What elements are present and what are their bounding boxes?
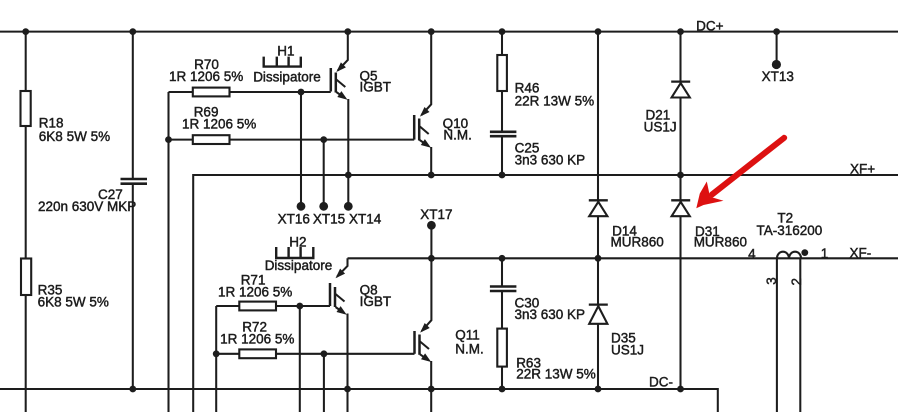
node XT14	[344, 202, 353, 211]
wire XT15 drop	[323, 140, 325, 206]
svg-text:1R 1206 5%: 1R 1206 5%	[169, 69, 243, 84]
junction dot R69 row / XT15 column	[320, 136, 327, 143]
wire XT14 drop	[347, 175, 349, 206]
svg-text:XT16: XT16	[278, 212, 310, 227]
junction dot R72 row / column	[321, 350, 328, 357]
svg-text:H2: H2	[289, 235, 306, 250]
transformer T2 winding	[777, 252, 801, 259]
svg-text:3n3 630 KP: 3n3 630 KP	[515, 153, 586, 168]
transistor Q5	[331, 32, 391, 175]
resistor R70	[193, 88, 230, 97]
red annotation arrow	[696, 138, 784, 209]
junction dot R70 row / XT16 column	[298, 89, 305, 96]
svg-text:Q11: Q11	[455, 328, 480, 343]
wire D14 anode to XF-	[597, 216, 599, 258]
junction dots XF+ rail	[345, 172, 684, 179]
svg-text:220n 630V MKP: 220n 630V MKP	[38, 199, 136, 214]
svg-text:DC-: DC-	[649, 375, 673, 390]
svg-text:H1: H1	[277, 44, 294, 59]
svg-text:1R 1206 5%: 1R 1206 5%	[220, 332, 294, 347]
wire T2 pin2 leg	[799, 258, 801, 412]
resistor R71	[239, 302, 276, 311]
svg-text:Dissipatore: Dissipatore	[253, 70, 321, 85]
wire R18/R35 column	[25, 32, 27, 412]
svg-text:XT13: XT13	[762, 69, 794, 84]
svg-text:N.M.: N.M.	[443, 128, 472, 143]
transistor Q11	[415, 258, 484, 412]
wire XT17/Q11 collector column	[430, 225, 432, 258]
wire XF- rail	[348, 257, 898, 259]
svg-text:XT14: XT14	[349, 212, 382, 227]
resistor R35	[21, 259, 31, 296]
wire DC+ bus	[0, 31, 898, 33]
transistor Q8	[330, 258, 391, 412]
node XT17	[427, 221, 436, 230]
svg-text:XT15: XT15	[313, 212, 345, 227]
resistor R63	[497, 329, 595, 389]
wire C27 column	[132, 32, 134, 389]
junction dot R69 row left	[165, 136, 172, 143]
capacitor C30	[490, 258, 585, 328]
svg-text:6K8 5W 5%: 6K8 5W 5%	[39, 129, 110, 144]
capacitor C27	[38, 179, 147, 214]
junction dots DC+ bus	[22, 28, 780, 35]
svg-text:XF+: XF+	[850, 162, 875, 177]
wire R71 row	[216, 305, 330, 307]
heatsink H1	[264, 57, 301, 67]
svg-text:1: 1	[821, 246, 829, 261]
node XT15	[319, 202, 328, 211]
svg-text:6K8 5W 5%: 6K8 5W 5%	[38, 295, 109, 310]
svg-text:1R 1206 5%: 1R 1206 5%	[218, 285, 292, 300]
diode D14	[589, 200, 664, 249]
wire XT16 drop	[300, 92, 302, 206]
svg-text:4: 4	[748, 247, 756, 262]
wire T2 pin3 leg	[776, 258, 778, 412]
wire XT15-R72 drop	[323, 354, 325, 412]
transformer T2	[748, 211, 828, 412]
wire XT16-R71 drop	[299, 306, 301, 412]
transistor Q10	[414, 32, 472, 175]
svg-text:XT17: XT17	[420, 207, 452, 222]
svg-text:22R 13W 5%: 22R 13W 5%	[516, 367, 596, 382]
wire R72 row	[216, 353, 414, 355]
svg-text:22R 13W 5%: 22R 13W 5%	[515, 94, 595, 109]
svg-text:TA-316200: TA-316200	[757, 223, 823, 238]
svg-text:IGBT: IGBT	[360, 294, 392, 309]
svg-text:2: 2	[789, 278, 804, 286]
heatsink H2	[276, 247, 313, 258]
wire D14 column upper	[597, 32, 599, 201]
capacitor C25	[490, 91, 585, 175]
wire gate-drive column A	[167, 92, 169, 412]
resistor R69	[193, 135, 230, 144]
resistor R18	[21, 91, 31, 126]
resistor R72	[239, 349, 276, 358]
svg-text:US1J: US1J	[611, 343, 644, 358]
svg-text:IGBT: IGBT	[360, 80, 392, 95]
diode D21	[644, 32, 691, 175]
wire DC- bus	[0, 389, 718, 412]
wire R70 row	[169, 91, 331, 93]
svg-text:DC+: DC+	[696, 19, 723, 34]
svg-text:MUR860: MUR860	[694, 235, 747, 250]
svg-text:US1J: US1J	[644, 120, 677, 135]
svg-text:1R 1206 5%: 1R 1206 5%	[182, 117, 256, 132]
svg-text:3n3 630 KP: 3n3 630 KP	[515, 307, 586, 322]
node XT13	[762, 32, 794, 84]
svg-text:XF-: XF-	[850, 246, 872, 261]
resistor R46	[497, 32, 594, 109]
wire gate-drive column B	[215, 306, 217, 412]
transformer T2 polarity dot	[801, 249, 808, 256]
diode D31	[671, 175, 747, 389]
svg-text:N.M.: N.M.	[455, 342, 484, 357]
svg-text:Dissipatore: Dissipatore	[265, 258, 333, 273]
junction dot R72 row left	[213, 350, 220, 357]
svg-text:3: 3	[764, 277, 779, 285]
junction dot R71 row / column	[296, 303, 303, 310]
node XT16	[297, 202, 306, 211]
diode D35	[589, 258, 644, 389]
junction dots XF- rail	[428, 255, 601, 262]
wire XF+ rail	[193, 175, 898, 412]
svg-text:MUR860: MUR860	[611, 235, 664, 250]
junction dots DC- bus	[129, 386, 683, 393]
wire R69 row	[169, 139, 415, 141]
